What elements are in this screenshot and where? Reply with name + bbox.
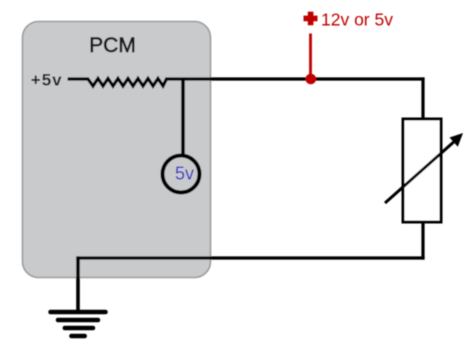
supply plus symbol xyxy=(304,12,318,26)
ground bar 4 xyxy=(71,334,84,339)
svg-text:+5v: +5v xyxy=(31,71,63,90)
wire to ground xyxy=(76,256,80,312)
svg-text:PCM: PCM xyxy=(89,34,136,57)
thermistor arrow shaft xyxy=(385,140,457,204)
thermistor body RT1 xyxy=(403,119,441,222)
ground bar 1 xyxy=(51,310,106,315)
wire branch down to 5v sensor xyxy=(181,79,185,156)
voltmeter circle U1 xyxy=(163,156,200,193)
resistor R1 (pull-up zigzag) xyxy=(88,79,167,87)
ground bar 2 xyxy=(58,318,98,323)
svg-text:5v: 5v xyxy=(175,164,194,184)
wire +5v lead xyxy=(68,77,90,80)
wire down to thermistor xyxy=(421,77,424,120)
ground bar 3 xyxy=(65,326,93,331)
junction dot xyxy=(306,74,317,85)
svg-text:12v or 5v: 12v or 5v xyxy=(321,10,393,30)
wire resistor to right corner xyxy=(165,77,425,80)
supply feed wire (red) xyxy=(309,34,312,77)
PCM module box xyxy=(23,22,211,278)
thermistor arrow head xyxy=(450,133,464,147)
wire return run xyxy=(76,256,424,259)
wire thermistor bottom lead xyxy=(421,222,424,260)
